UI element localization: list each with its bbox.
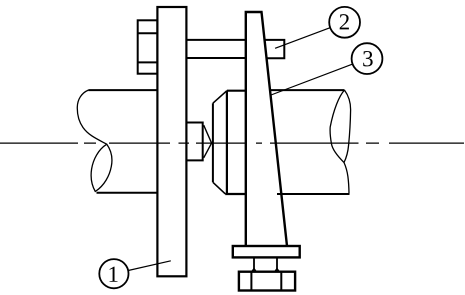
callout circle 2 bbox=[329, 7, 360, 38]
right shaft break line inner bbox=[344, 90, 351, 162]
disc left face bbox=[212, 103, 214, 182]
centerline bbox=[0, 142, 464, 144]
left shaft break line bbox=[77, 90, 112, 191]
nut chamfer line left bbox=[250, 272, 252, 291]
flange bbox=[233, 246, 300, 257]
callout circle 3 bbox=[352, 43, 383, 74]
stem left foot bbox=[252, 269, 256, 272]
callout text 1 bbox=[110, 267, 118, 282]
disc chamfer edge bbox=[226, 91, 228, 194]
stem right line bbox=[276, 257, 278, 271]
callout circle 1 bbox=[99, 259, 128, 288]
left shaft bottom edge bbox=[97, 192, 158, 194]
disc top chamfer bbox=[213, 91, 227, 104]
leader line 1 bbox=[128, 261, 171, 271]
lever (item 3) bbox=[246, 12, 287, 246]
rod end bbox=[264, 40, 284, 58]
cone point bbox=[204, 125, 212, 158]
leader line 3 bbox=[271, 64, 353, 95]
bolt head chamfer line lower bbox=[138, 61, 158, 63]
rod (item 2) lower line bbox=[186, 57, 245, 59]
stem right foot bbox=[275, 269, 279, 272]
callout text 2 bbox=[340, 14, 349, 29]
left shaft top edge bbox=[88, 89, 157, 91]
right shaft break line outer bbox=[330, 90, 349, 193]
nut bbox=[239, 272, 295, 291]
right shaft top edge bbox=[269, 89, 345, 91]
leader line 2 bbox=[275, 28, 330, 49]
disc bottom chamfer bbox=[213, 182, 225, 194]
plate (item 1) bbox=[157, 7, 186, 276]
rod (item 2) upper line bbox=[186, 39, 245, 41]
callout text 3 bbox=[363, 51, 373, 66]
stem left line bbox=[253, 257, 255, 271]
disc top edge bbox=[227, 90, 246, 92]
bolt head chamfer line upper bbox=[138, 32, 158, 34]
collar bbox=[186, 123, 202, 161]
nut chamfer line right bbox=[280, 272, 282, 291]
disc bottom edge bbox=[225, 193, 245, 195]
hex bolt head bbox=[138, 20, 158, 73]
right shaft bottom edge bbox=[277, 193, 350, 195]
